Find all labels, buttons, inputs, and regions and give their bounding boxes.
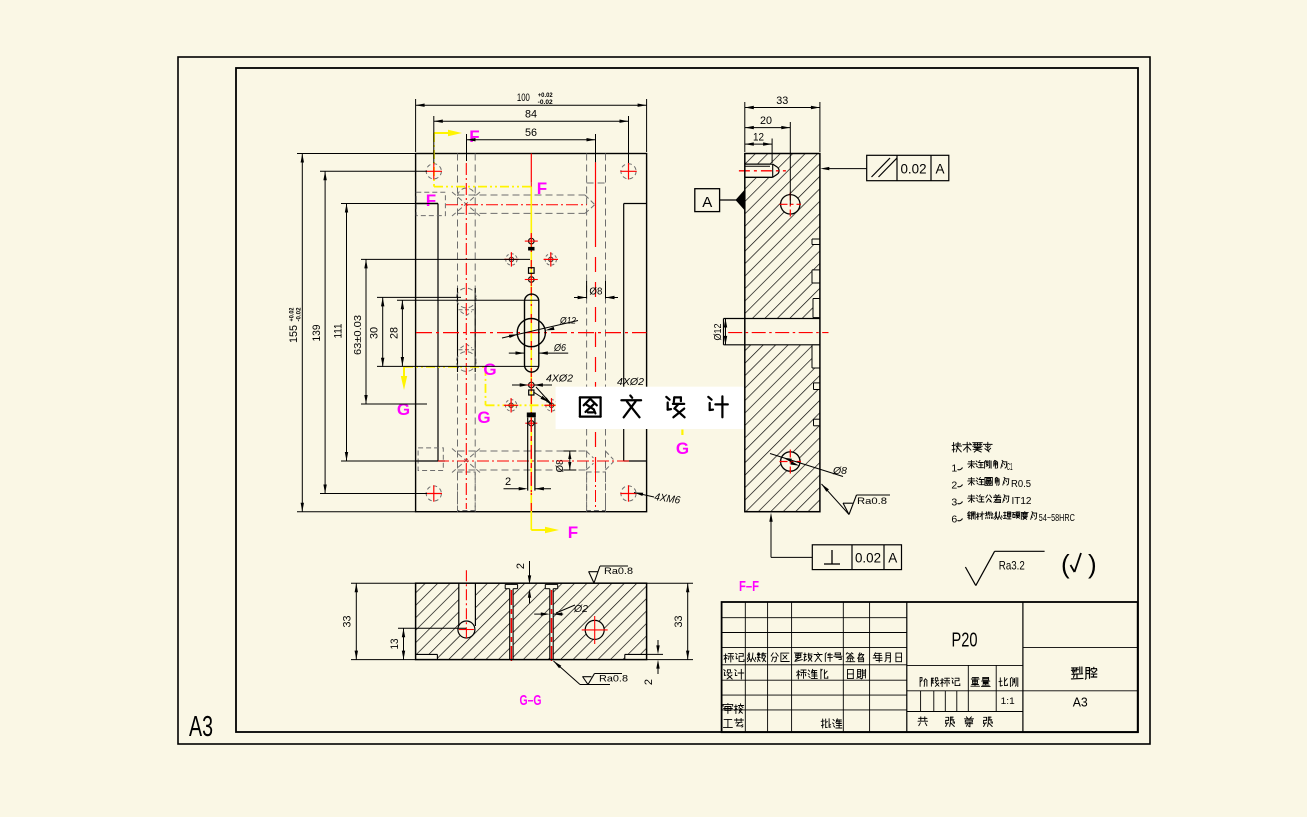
svg-text:3: 3 xyxy=(951,497,957,509)
F-F top hole circle xyxy=(781,195,800,214)
svg-text:Ø8: Ø8 xyxy=(589,286,602,298)
svg-text:Ra3.2: Ra3.2 xyxy=(999,559,1025,573)
Ra0.8 G-G top xyxy=(589,572,594,584)
section line G xyxy=(403,367,405,383)
plan side step lines xyxy=(416,203,438,205)
svg-text:4XØ2: 4XØ2 xyxy=(546,373,573,385)
label d6 xyxy=(509,352,525,354)
svg-text:A3: A3 xyxy=(189,711,213,743)
svg-text:139: 139 xyxy=(311,325,323,342)
dim 30 xyxy=(382,297,384,366)
svg-text:Ø12: Ø12 xyxy=(713,323,724,340)
svg-text:(: ( xyxy=(1061,549,1070,579)
svg-text:2: 2 xyxy=(505,476,511,488)
svg-text:Ø12: Ø12 xyxy=(559,316,577,327)
F-F d8 hole circle xyxy=(781,452,800,471)
svg-text:28: 28 xyxy=(388,327,400,339)
G-G body hatch xyxy=(416,583,647,659)
G-G slits xyxy=(510,589,513,660)
svg-text:G–G: G–G xyxy=(520,692,542,709)
svg-text:33: 33 xyxy=(342,616,354,628)
svg-text:0.02: 0.02 xyxy=(901,162,927,177)
svg-text:+0.02: +0.02 xyxy=(289,307,296,321)
section line F xyxy=(434,132,456,134)
dim d8 bottom channel xyxy=(569,451,571,470)
svg-text:F: F xyxy=(469,127,479,146)
svg-text:A: A xyxy=(935,162,944,177)
svg-text:155: 155 xyxy=(288,325,300,343)
svg-text:F: F xyxy=(568,523,578,542)
dim d12 F-F left xyxy=(725,319,727,345)
F-F top slot xyxy=(745,164,779,177)
centerline slot vertical xyxy=(530,154,532,183)
dim d2 G-G xyxy=(534,613,546,615)
dim 33 F-F xyxy=(745,107,820,109)
svg-text:F–F: F–F xyxy=(739,578,759,595)
G-G corner notches xyxy=(416,654,438,659)
hidden channel bottom horizontal xyxy=(458,450,587,452)
slit in plan xyxy=(527,418,529,491)
svg-text:1: 1 xyxy=(951,463,957,475)
dim 2 G-G right xyxy=(657,640,659,652)
dim 56 xyxy=(467,139,596,141)
svg-text:1:1: 1:1 xyxy=(1001,696,1015,707)
svg-text:12: 12 xyxy=(753,132,764,144)
svg-text:F: F xyxy=(426,191,436,210)
svg-text:2: 2 xyxy=(515,563,527,569)
dim 33 G-G left xyxy=(355,583,357,659)
G-G right hole xyxy=(585,620,604,639)
centerline left channel xyxy=(465,163,467,509)
F-F body outline xyxy=(745,154,820,512)
svg-text:2: 2 xyxy=(643,679,655,685)
centerline main horizontal xyxy=(416,332,646,334)
hidden pocket top-left xyxy=(416,192,445,215)
F-F d12 hole band xyxy=(724,319,820,345)
svg-text:G: G xyxy=(483,360,496,379)
hidden channel left vertical xyxy=(457,154,459,512)
svg-text:0.02: 0.02 xyxy=(855,551,881,566)
svg-text:54~58HRC: 54~58HRC xyxy=(1039,513,1075,524)
F-F d8 leader label xyxy=(770,454,843,477)
svg-text:Ø8: Ø8 xyxy=(832,465,847,477)
small holes on centerline xyxy=(529,238,535,244)
dim 2 plan xyxy=(504,488,526,490)
dim 84 xyxy=(434,120,629,122)
F-F right edge notches xyxy=(812,239,820,245)
svg-text:Ra0.8: Ra0.8 xyxy=(604,566,633,577)
F-F section body hatch xyxy=(745,154,820,512)
svg-text:G: G xyxy=(676,439,689,458)
hidden pocket bottom-left xyxy=(418,448,443,471)
svg-text:P20: P20 xyxy=(952,630,978,652)
svg-text:G: G xyxy=(477,408,490,427)
center circle d12 xyxy=(517,319,545,347)
dim 2 G-G top xyxy=(529,561,531,582)
G-G outline xyxy=(416,583,647,659)
datum A xyxy=(695,189,720,212)
title block outer xyxy=(722,602,1138,732)
svg-text:56: 56 xyxy=(525,127,537,139)
svg-text:84: 84 xyxy=(525,109,537,121)
svg-text:-0.02: -0.02 xyxy=(296,307,303,321)
label d12 xyxy=(502,321,578,339)
svg-text:Ra0.8: Ra0.8 xyxy=(599,674,628,685)
tech requirements title xyxy=(952,442,992,452)
svg-text:111: 111 xyxy=(332,324,344,339)
perpendicularity tolerance frame xyxy=(812,545,901,570)
Ra3.2 general roughness symbol xyxy=(965,567,975,586)
slot outline xyxy=(525,294,539,372)
plan view outline xyxy=(416,154,647,512)
svg-text:100: 100 xyxy=(517,92,530,104)
dim 139 xyxy=(324,171,326,493)
svg-text:13: 13 xyxy=(389,639,401,650)
hidden counterbores left channel xyxy=(456,288,476,308)
hidden cross top junction xyxy=(452,192,480,216)
svg-text:A: A xyxy=(702,194,712,211)
svg-text:30: 30 xyxy=(369,327,381,339)
Ra0.8 F-F xyxy=(822,484,850,515)
svg-text:C1: C1 xyxy=(1007,462,1013,473)
M6 corner holes xyxy=(426,164,441,179)
svg-text:A: A xyxy=(888,551,897,566)
svg-text:): ) xyxy=(1088,549,1097,579)
hidden cross bottom junction xyxy=(452,449,480,473)
dim 33 G-G right xyxy=(687,583,689,659)
hidden channel top horizontal xyxy=(458,194,586,196)
svg-text:IT12: IT12 xyxy=(1012,496,1032,507)
dim 20 F-F xyxy=(745,127,791,129)
svg-text:G: G xyxy=(397,400,410,419)
svg-text:-0.02: -0.02 xyxy=(538,99,553,106)
hidden channel ends xyxy=(458,188,476,196)
watermark text xyxy=(580,397,601,416)
dim 111 xyxy=(346,204,348,462)
outer frame xyxy=(178,57,1150,744)
svg-text:33: 33 xyxy=(776,95,788,107)
title texts right xyxy=(1071,667,1096,679)
hidden channel right vertical xyxy=(586,154,588,512)
svg-text:R0.5: R0.5 xyxy=(1011,479,1031,490)
G-G left blind hole xyxy=(459,583,476,629)
Ra0.8 G-G bottom leader xyxy=(554,661,581,685)
label 4xM6 xyxy=(634,493,654,498)
svg-text:33: 33 xyxy=(673,616,685,628)
svg-text:2: 2 xyxy=(951,480,957,492)
svg-text:F: F xyxy=(537,179,547,198)
label 4xd2 xyxy=(512,384,526,386)
svg-text:Ø6: Ø6 xyxy=(553,343,566,354)
watermark box xyxy=(556,387,744,429)
centerline top pocket xyxy=(446,204,587,206)
dim d8 plan xyxy=(586,281,588,299)
dim 155 left xyxy=(301,154,303,512)
svg-text:63±0.03: 63±0.03 xyxy=(353,315,364,355)
title texts left xyxy=(724,653,744,662)
dim 28 xyxy=(401,300,403,366)
dim 12 F-F xyxy=(745,143,772,145)
inner frame xyxy=(236,68,1138,732)
side hole pairs xyxy=(506,254,517,265)
svg-text:Ø2: Ø2 xyxy=(573,603,588,615)
svg-text:20: 20 xyxy=(760,115,772,127)
svg-text:6: 6 xyxy=(951,514,957,526)
dim 63 xyxy=(365,259,367,404)
centerline bottom pocket xyxy=(437,460,630,462)
svg-text:4XØ2: 4XØ2 xyxy=(617,376,644,388)
centerline right channel xyxy=(595,162,597,232)
svg-text:A3: A3 xyxy=(1073,695,1088,710)
svg-text:Ra0.8: Ra0.8 xyxy=(857,496,887,507)
dim 100 top xyxy=(416,104,647,106)
dim 13 G-G xyxy=(403,628,405,659)
title block grid xyxy=(722,617,907,619)
parallelism tolerance frame xyxy=(867,155,949,180)
